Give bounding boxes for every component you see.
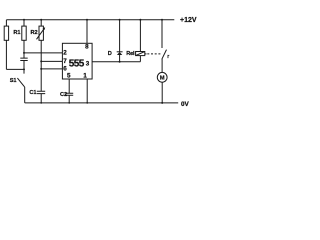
node junction rail-contact: [161, 19, 163, 21]
svg-text:D: D: [108, 51, 112, 57]
svg-text:r: r: [167, 54, 169, 60]
svg-text:7: 7: [63, 58, 67, 65]
wire cap bottom to switch top terminal: [23, 61, 25, 74]
wire pin3 output to relay branch: [92, 61, 140, 63]
wire 0V bottom rail: [25, 102, 179, 104]
mechanical link stub at relay coil: [145, 53, 147, 55]
resistor (unlabeled trigger pull-up) box: [4, 26, 8, 40]
node junction pin2: [23, 52, 25, 54]
wire R1 bottom to pin2 node: [23, 40, 25, 58]
wire R2 bottom down through pin7/pin6 nodes to C1: [40, 40, 42, 91]
diode D triangle: [117, 52, 122, 55]
wire contact top from rail: [161, 20, 163, 48]
svg-text:5: 5: [67, 73, 71, 80]
wire unlabeled resistor bottom down to S1 node: [5, 40, 7, 69]
svg-text:3: 3: [86, 61, 90, 68]
capacitor C1 plates: [37, 91, 45, 93]
switch S1 lever: [17, 78, 24, 87]
svg-text:8: 8: [85, 43, 89, 50]
node junction pin6: [40, 68, 42, 70]
motor M circle: [157, 72, 167, 82]
svg-text:C2: C2: [60, 92, 67, 98]
wire S1 bottom to 0V rail: [24, 87, 26, 103]
relay contact r lever: [162, 50, 167, 60]
wire pin6 to 555: [41, 68, 62, 70]
wire diode bottom to pin3 line: [119, 55, 121, 62]
wire C1 bottom to 0V rail: [40, 94, 42, 103]
wire pin7 to 555: [41, 60, 62, 62]
svg-text:6: 6: [63, 65, 67, 72]
node junction pin7: [40, 60, 42, 62]
svg-text:1: 1: [83, 73, 87, 80]
wire pin1 from 555 to 0V rail: [86, 79, 88, 103]
svg-text:2: 2: [63, 49, 67, 56]
svg-text:R1: R1: [13, 30, 20, 36]
svg-text:R2: R2: [31, 30, 38, 36]
svg-text:S1: S1: [10, 78, 17, 84]
wire diode top from rail: [119, 20, 121, 52]
relay coil Rel diagonal: [136, 52, 145, 56]
wire pin5 from 555 to C2: [68, 79, 70, 93]
wire relay coil top from rail: [139, 20, 141, 52]
wire pin2 to 555: [24, 52, 62, 54]
wire rail to R1: [23, 20, 25, 26]
relay coil Rel box: [136, 52, 145, 56]
svg-text:+12V: +12V: [180, 17, 197, 24]
svg-text:C1: C1: [29, 90, 36, 96]
node junction rail-R1: [23, 19, 25, 21]
wire contact bottom to motor: [161, 59, 163, 72]
wire pin8 from rail to 555 top: [86, 20, 88, 44]
wire left drop from rail to unlabeled resistor: [5, 20, 7, 26]
node junction C2-0V rail: [68, 102, 70, 104]
resistor R1 box: [22, 26, 26, 40]
node junction rail-R2: [40, 19, 42, 21]
node junction rail-diode: [119, 19, 121, 21]
wire +12V top rail: [6, 19, 174, 21]
svg-text:555: 555: [69, 59, 85, 70]
svg-text:M: M: [160, 75, 165, 81]
node junction rail-relay coil: [139, 19, 141, 21]
wire rail to R2 pot: [40, 20, 42, 26]
wire C2 bottom to 0V rail: [68, 95, 70, 103]
node junction diode-pin3: [119, 61, 121, 63]
diode D cathode bar: [117, 51, 123, 53]
svg-text:0V: 0V: [181, 101, 190, 108]
node junction S1 top: [23, 68, 25, 70]
node junction rail-pin8: [86, 19, 88, 21]
mechanical link dashed relay to contact: [147, 53, 161, 55]
potentiometer R2 box: [39, 26, 43, 40]
wire relay coil bottom to pin3 line: [139, 56, 141, 62]
potentiometer R2 arrow: [37, 29, 45, 40]
node junction C1-0V rail: [40, 102, 42, 104]
node junction motor-0V rail: [161, 102, 163, 104]
op-amp 555 IC body: [62, 43, 92, 79]
wire horizontal to S1 top node: [6, 68, 24, 70]
node junction pin1-0V rail: [86, 102, 88, 104]
capacitor trigger coupling plates: [20, 58, 27, 60]
wire motor bottom to 0V rail: [161, 82, 163, 103]
svg-text:Rel: Rel: [126, 51, 135, 57]
capacitor C2 plates: [65, 93, 73, 95]
